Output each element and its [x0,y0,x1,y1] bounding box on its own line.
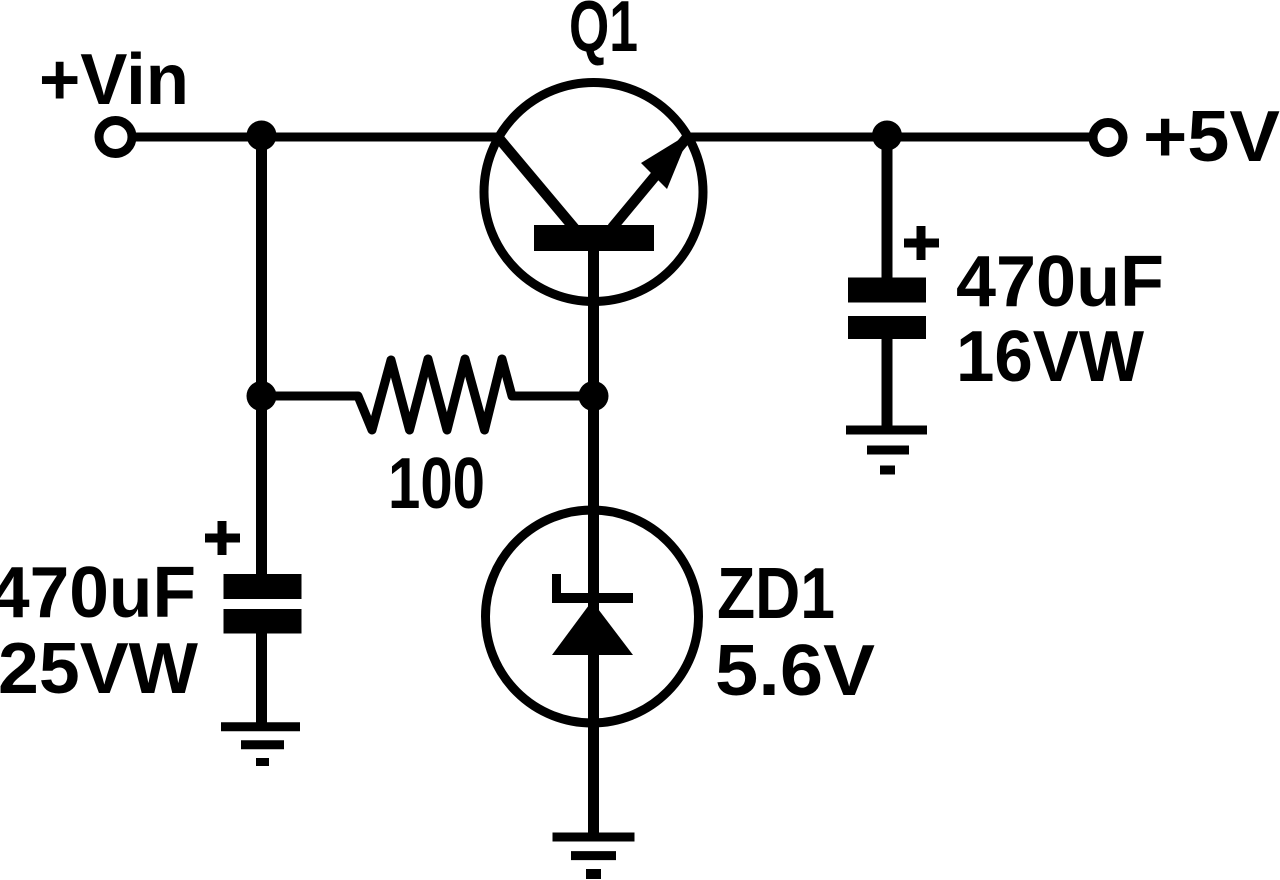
svg-text:16VW: 16VW [956,317,1144,397]
wire base/zener vertical [588,251,599,837]
svg-text:25VW: 25VW [0,629,198,709]
svg-text:+5V: +5V [1143,97,1280,177]
svg-text:ZD1: ZD1 [717,554,835,634]
ground input [221,727,300,762]
junction input node [247,121,277,151]
zener diode ZD1 [486,510,699,723]
terminal +Vin [99,121,132,154]
capacitor C2 wire bottom [882,339,893,431]
svg-text:470uF: 470uF [956,242,1164,322]
capacitor C2 plates [848,278,926,340]
resistor R 100 [261,359,594,430]
svg-text:Q1: Q1 [569,0,638,67]
transistor Q1 [484,83,703,302]
svg-text:100: 100 [388,444,485,524]
capacitor C1 wire bottom [256,633,267,727]
terminal +5V [1093,123,1123,153]
svg-text:+Vin: +Vin [39,40,189,120]
svg-text:470uF: 470uF [0,553,196,633]
capacitor C2 plus sign [904,226,939,260]
ground zener [553,837,635,874]
ground output [846,430,927,470]
wire input top [136,133,497,142]
capacitor C2 wire top [882,137,893,280]
junction base node left [247,381,277,411]
wire input vertical [256,137,267,578]
junction output node [872,121,902,151]
zener anode triangle [552,601,633,655]
svg-text:5.6V: 5.6V [715,631,875,711]
zener cathode bar [552,574,633,603]
junction base node right [579,381,609,411]
capacitor C1 plus sign [205,521,240,555]
capacitor C1 plates [224,574,302,634]
wire output top [691,133,1091,142]
